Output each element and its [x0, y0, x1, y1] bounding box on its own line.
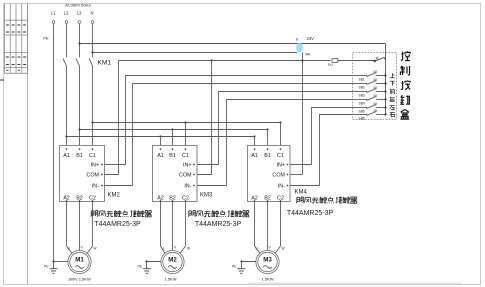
wire COM bus — [119, 59, 375, 61]
selector switch SA — [374, 57, 386, 63]
wire control line 6 — [320, 115, 353, 186]
supply terminal circles — [52, 21, 94, 24]
wire KM3 IN- stub — [197, 185, 227, 187]
svg-text:C1: C1 — [182, 153, 189, 159]
svg-text:PE: PE — [43, 36, 49, 41]
motor M1 — [68, 250, 91, 273]
button name label up — [390, 73, 395, 78]
wire 24V+ drop and common rail — [385, 44, 387, 115]
ground M1 — [50, 269, 58, 274]
motor M2 — [161, 250, 184, 273]
svg-text:PE: PE — [232, 265, 237, 269]
svg-text:A1: A1 — [157, 153, 164, 159]
svg-text:KM4: KM4 — [295, 190, 308, 196]
svg-text:C1: C1 — [89, 153, 96, 159]
table contact marks — [6, 25, 26, 70]
svg-text:B1: B1 — [76, 153, 83, 159]
wire M3 earth link — [240, 260, 256, 268]
svg-text:1.5KW: 1.5KW — [164, 277, 176, 282]
contactor KM1 poles — [63, 59, 93, 67]
svg-text:L1: L1 — [51, 11, 56, 16]
svg-text:380V 1.5KW: 380V 1.5KW — [68, 277, 91, 282]
wire M2 earth link — [145, 260, 161, 268]
wire 24V+ horizontal — [78, 42, 385, 44]
motor M3 — [256, 250, 279, 273]
svg-text:A1: A1 — [63, 153, 70, 159]
wire M1 earth link — [52, 260, 68, 262]
wire KM3 IN+ stub — [197, 164, 219, 166]
svg-text:COM: COM — [179, 173, 192, 179]
pushbutton SB6 — [353, 109, 387, 121]
svg-text:M2: M2 — [168, 257, 177, 264]
svg-text:PE: PE — [138, 265, 143, 269]
contactor KM3 body — [153, 146, 198, 202]
wire KM4 IN- stub — [290, 185, 320, 187]
button name label left — [390, 106, 395, 110]
svg-text:COM: COM — [86, 173, 99, 179]
svg-text:C1: C1 — [277, 153, 284, 159]
svg-text:L2: L2 — [64, 11, 69, 16]
svg-text:08: 08 — [374, 94, 378, 98]
terminal strip table QF — [5, 4, 28, 74]
svg-text:4W: 4W — [305, 53, 311, 57]
wire control line 3 — [219, 92, 353, 165]
ground M2 — [143, 269, 151, 274]
frame tick mark — [0, 79, 4, 81]
pushbutton SB2 — [353, 78, 387, 90]
wire KM4 COM stub — [290, 174, 303, 176]
svg-text:T44AMR25-3P: T44AMR25-3P — [195, 221, 242, 228]
button name label down — [390, 81, 395, 86]
svg-text:08: 08 — [374, 102, 378, 106]
wire phase B vertical — [79, 24, 81, 149]
wires KM4 to motor M3 — [255, 202, 281, 254]
wires KM3 to motor M2 — [161, 202, 186, 254]
svg-text:M3: M3 — [263, 257, 272, 264]
pushbutton SB5 — [353, 102, 387, 114]
svg-text:B1: B1 — [169, 153, 176, 159]
svg-text:W: W — [94, 247, 97, 251]
KM2 type label CJK — [91, 210, 151, 217]
button name label right — [390, 113, 395, 117]
svg-text:T44AMR25-3P: T44AMR25-3P — [287, 210, 334, 217]
svg-text:SB6: SB6 — [359, 117, 365, 121]
wire KM2 IN+ stub — [105, 164, 126, 166]
motor M2 terminal pins — [162, 246, 191, 251]
svg-text:1.5KW: 1.5KW — [261, 277, 273, 282]
wire control line 2 — [133, 84, 353, 186]
svg-text:24V: 24V — [307, 36, 315, 41]
svg-text:W: W — [187, 247, 190, 251]
wires KM2 to motor M1 — [67, 202, 93, 254]
wire KM3 COM riser — [197, 61, 212, 175]
contactor KM4 body — [248, 146, 291, 202]
svg-text:T44AMR25-3P: T44AMR25-3P — [94, 221, 141, 228]
ground M3 — [237, 269, 245, 274]
wire phase C vertical — [92, 24, 94, 149]
wire control line 4 — [227, 100, 353, 186]
wire phase bus A1 — [65, 135, 255, 137]
svg-text:IN+: IN+ — [276, 163, 285, 169]
svg-text:IN-: IN- — [92, 184, 99, 190]
svg-text:PE: PE — [44, 265, 49, 269]
wire control line 1 — [126, 76, 353, 165]
svg-text:08: 08 — [374, 109, 378, 113]
svg-text:SB5: SB5 — [359, 110, 365, 114]
KM3 type label CJK — [188, 210, 248, 217]
wire phase A vertical — [66, 24, 68, 149]
wire KM4 feeders — [255, 123, 281, 149]
inner frame line — [27, 4, 29, 285]
svg-text:L3: L3 — [77, 11, 82, 16]
wire control line 5 — [312, 108, 353, 165]
svg-text:AC380V 50HZ: AC380V 50HZ — [65, 3, 91, 8]
pushbutton SB3 — [353, 86, 387, 98]
svg-text:N: N — [90, 11, 93, 16]
svg-text:M1: M1 — [75, 257, 84, 264]
KM4 type label CJK — [296, 197, 356, 204]
svg-text:08: 08 — [374, 70, 378, 74]
svg-text:SB2: SB2 — [359, 86, 365, 90]
svg-text:KM2: KM2 — [108, 192, 121, 198]
wire KM2 COM riser — [105, 61, 119, 175]
button name label front — [390, 89, 395, 94]
control box title vertical — [400, 51, 410, 119]
svg-text:A1: A1 — [251, 153, 258, 159]
svg-text:IN-: IN- — [278, 184, 285, 190]
pushbutton SB1 — [353, 70, 387, 82]
svg-text:B1: B1 — [264, 153, 271, 159]
wire phase bus B1 — [78, 128, 268, 130]
fuse FU — [328, 59, 338, 67]
svg-text:FU: FU — [328, 63, 333, 67]
wire supply drop vertical — [302, 53, 304, 175]
svg-text:08: 08 — [374, 78, 378, 82]
svg-text:KM3: KM3 — [200, 192, 213, 198]
wire KM4 IN+ stub — [290, 164, 312, 166]
pushbutton SB4 — [353, 94, 387, 106]
svg-text:SB3: SB3 — [359, 94, 365, 98]
control box border — [353, 53, 397, 120]
button name label back — [390, 97, 395, 102]
24V power supply node — [296, 36, 314, 57]
wire PE vertical — [53, 24, 55, 269]
svg-text:08: 08 — [374, 86, 378, 90]
svg-text:IN-: IN- — [184, 184, 191, 190]
wire phase bus C1 — [91, 121, 281, 123]
motor M1 terminal pins — [68, 246, 97, 251]
svg-text:IN+: IN+ — [183, 163, 192, 169]
contactor KM2 body — [60, 146, 105, 202]
wire KM3 feeders — [161, 123, 186, 149]
svg-text:SB4: SB4 — [359, 101, 365, 105]
wire to supply horizontal — [91, 51, 297, 53]
svg-text:W: W — [282, 247, 285, 251]
motor M3 terminal pins — [256, 246, 285, 251]
svg-text:SB1: SB1 — [359, 78, 365, 82]
svg-text:KM1: KM1 — [98, 60, 112, 67]
svg-text:IN+: IN+ — [90, 163, 99, 169]
wire KM2 IN- stub — [105, 185, 133, 187]
svg-text:COM: COM — [272, 173, 285, 179]
